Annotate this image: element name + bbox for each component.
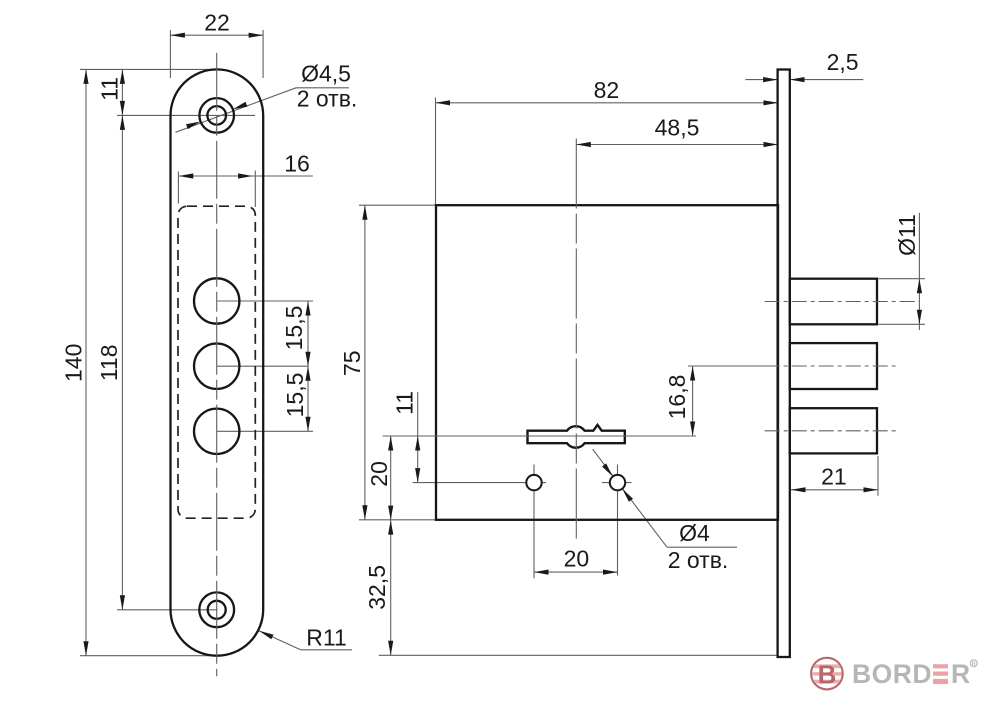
svg-text:2,5: 2,5 [827,49,859,75]
svg-text:16: 16 [284,151,310,177]
svg-text:82: 82 [594,77,620,103]
svg-text:20: 20 [366,461,392,487]
svg-text:15,5: 15,5 [281,306,307,351]
svg-text:11: 11 [96,77,122,101]
svg-text:Ø4,5: Ø4,5 [301,61,351,87]
svg-text:R11: R11 [306,625,347,651]
svg-text:R: R [951,659,970,689]
svg-text:48,5: 48,5 [655,115,700,141]
svg-text:32,5: 32,5 [364,565,390,610]
svg-text:75: 75 [339,350,365,376]
svg-text:R: R [972,661,976,667]
svg-text:Ø11: Ø11 [894,214,920,256]
svg-text:16,8: 16,8 [664,375,690,420]
svg-text:Ø4: Ø4 [679,520,710,546]
svg-text:BORD: BORD [852,659,932,689]
svg-text:22: 22 [204,10,230,36]
svg-text:118: 118 [96,344,122,381]
svg-text:15,5: 15,5 [282,373,308,418]
svg-text:B: B [818,659,837,689]
svg-text:2 отв.: 2 отв. [668,547,729,573]
svg-text:2 отв.: 2 отв. [297,86,358,112]
svg-text:11: 11 [391,391,417,415]
svg-text:21: 21 [821,464,847,490]
svg-text:20: 20 [564,546,590,572]
svg-text:140: 140 [61,344,87,382]
